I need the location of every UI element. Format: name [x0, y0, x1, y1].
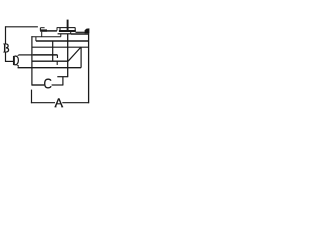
bottom wire right of A: [62, 102, 89, 104]
wire top-left horizontal: [5, 26, 38, 28]
pump bottom tail: [17, 65, 19, 68]
node B label: [3, 44, 8, 52]
step at x57 up to top plate line: [56, 27, 58, 30]
node C label: [45, 79, 51, 88]
valve plate bottom thick bar: [59, 30, 76, 32]
step down at x70.7: [70, 32, 72, 34]
stub below y61 at x57.2: [56, 61, 58, 65]
flag left edge: [39, 28, 41, 31]
valve plate right edge: [74, 28, 76, 31]
notch vertical x36: [35, 37, 37, 41]
top plate short line: [57, 27, 61, 29]
block upper surface line right part: [71, 33, 89, 35]
wire left vertical above B: [5, 26, 7, 43]
flag thick bar left part: [40, 29, 47, 31]
inner vertical x52.6: [52, 41, 54, 61]
block left edge: [31, 36, 33, 85]
C wire right: [52, 84, 64, 86]
flag top edge: [40, 27, 44, 29]
bottom wire left of A: [31, 102, 55, 104]
riser from C wire x62.9: [62, 77, 64, 85]
inner thick line y55: [33, 54, 58, 56]
wire to pump left port: [5, 60, 13, 62]
wire left vertical below B: [5, 52, 7, 62]
inner line y47: [32, 46, 89, 48]
line right of valve plate: [76, 31, 89, 33]
C wire left: [32, 84, 45, 86]
center vertical x67.6: [67, 34, 69, 77]
right edge long vertical: [88, 33, 90, 103]
pump P1 body: [13, 56, 15, 65]
diagonal of screw box: [68, 47, 81, 61]
step up at x60.7: [60, 34, 62, 37]
inner long line y41: [36, 40, 89, 42]
valve V1 stem: [67, 20, 69, 31]
flag bar right part: [47, 30, 57, 32]
block bottom edge y67.6: [18, 67, 82, 69]
lower-left riser: [31, 90, 33, 104]
valve plate left edge: [59, 28, 61, 31]
wire pump to block port: [19, 54, 33, 56]
valve plate top: [60, 27, 75, 29]
inner line y61: [32, 60, 68, 62]
screw box right edge x81: [80, 47, 82, 68]
black blob top right: [85, 28, 90, 33]
block upper surface line left part: [58, 33, 71, 35]
flag vertical to block top: [41, 32, 43, 37]
node A label: [55, 98, 64, 107]
pump top-right hook: [18, 54, 19, 57]
block top-left edge: [31, 36, 60, 38]
ledge y76.7: [57, 76, 67, 78]
stub below y55 at x57.5: [56, 55, 58, 58]
